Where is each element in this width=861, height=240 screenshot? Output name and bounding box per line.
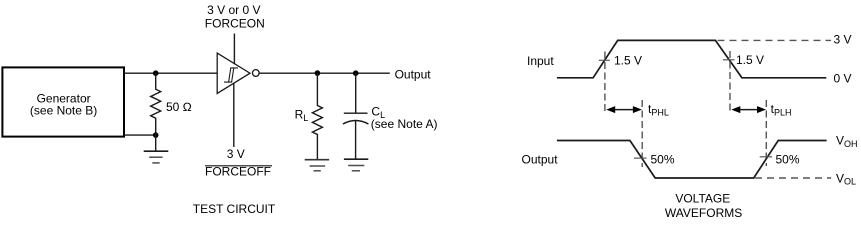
wire: FORCEOFF control [233,83,235,147]
dashed 3V level [718,39,832,41]
tick 1.5V rising [599,59,610,61]
svg-text:FORCEON: FORCEON [205,17,265,31]
tick 1.5V falling [723,59,735,61]
resistor RL [312,73,322,160]
svg-text:TEST CIRCUIT: TEST CIRCUIT [193,202,276,216]
svg-text:Input: Input [527,54,554,68]
tick 50% falling [634,157,647,159]
buffer U1 (schmitt trigger with output bubble) [217,53,259,93]
svg-text:1.5 V: 1.5 V [736,53,764,67]
node: CL junction [353,70,359,76]
output waveform [557,141,827,179]
wire: FORCEON control [233,34,235,65]
resistor 50 ohm [151,73,161,135]
svg-text:VOLTAGE: VOLTAGE [675,191,730,205]
svg-text:50%: 50% [651,153,675,167]
tPLH arrow [731,106,766,113]
caption VOLTAGE WAVEFORMS [665,191,742,220]
tick 50% rising [760,156,773,158]
svg-text:(see Note B): (see Note B) [30,103,97,117]
svg-text:1.5 V: 1.5 V [614,54,642,68]
dashed VOL level [755,177,831,179]
wire: generator output to buffer input [124,72,218,74]
capacitor CL [343,73,369,159]
dashed vertical at output falling 50% [641,100,643,167]
hysteresis symbol [224,68,238,82]
svg-text:3 V: 3 V [227,147,245,161]
tPHL arrow [606,106,642,113]
wire: buffer output to Output [259,72,390,74]
node: top junction [153,70,159,76]
input waveform [557,40,826,77]
svg-text:50 Ω: 50 Ω [166,100,192,114]
ground (below 50 ohm) [144,135,169,163]
svg-text:50%: 50% [776,153,800,167]
node: RL junction [315,70,321,76]
ground (below CL) [344,159,368,171]
svg-text:3 V: 3 V [834,33,852,47]
svg-text:Output: Output [522,152,559,166]
dashed vertical at output rising 50% [765,100,767,166]
label FORCEOFF (overlined) [205,165,272,179]
svg-text:3 V or 0 V: 3 V or 0 V [207,3,260,17]
svg-text:Output: Output [395,68,432,82]
node: bottom junction [153,132,159,138]
svg-text:FORCEOFF: FORCEOFF [205,165,271,179]
wire: generator bottom to 50 ohm [124,134,156,136]
svg-text:WAVEFORMS: WAVEFORMS [665,206,742,220]
svg-text:0 V: 0 V [834,71,852,85]
generator label [30,92,97,118]
dashed vertical at input falling 1.5V [729,51,731,113]
generator box [2,67,124,136]
dashed vertical at input rising 1.5V [604,52,606,114]
svg-text:(see Note A): (see Note A) [371,117,438,131]
ground (below RL) [305,160,329,171]
